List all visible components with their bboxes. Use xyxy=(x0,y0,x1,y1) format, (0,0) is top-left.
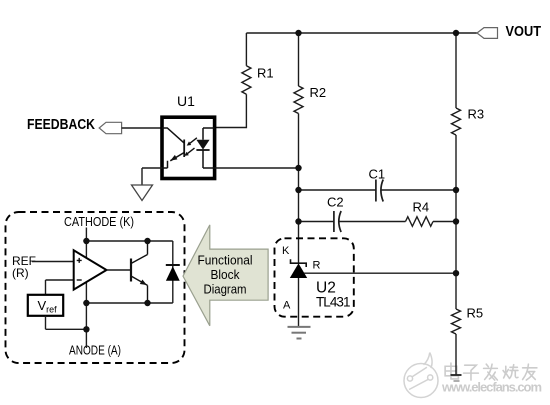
svg-text:VOUT: VOUT xyxy=(506,24,542,40)
ground (below R5) xyxy=(451,375,462,381)
svg-text:CATHODE (K): CATHODE (K) xyxy=(64,214,134,229)
svg-text:R1: R1 xyxy=(257,66,274,81)
wire: cathode vertical line xyxy=(85,228,87,349)
svg-text:C1: C1 xyxy=(369,167,386,182)
terminal FEEDBACK xyxy=(27,117,122,134)
svg-text:Diagram: Diagram xyxy=(204,281,247,296)
terminal VOUT xyxy=(477,24,541,40)
wire: Vref to anode rail xyxy=(46,316,87,330)
ground (below U2) xyxy=(288,327,311,339)
wire: op-amp output to transistor base xyxy=(107,269,132,271)
watermark chinese text 电子发烧友 xyxy=(445,363,537,380)
watermark logo (elecfans) xyxy=(404,353,438,398)
functional block diagram arrow xyxy=(183,225,268,326)
wire: U1 LED cathode to middle rail xyxy=(215,167,299,169)
svg-text:FEEDBACK: FEEDBACK xyxy=(27,117,95,133)
svg-text:TL431: TL431 xyxy=(316,295,351,310)
op-amp U3 (error amplifier) xyxy=(74,250,107,289)
resistor R3 xyxy=(452,33,461,309)
ground (below U1) xyxy=(132,185,153,201)
U1 light arrows xyxy=(187,138,197,154)
functional block diagram dashed box xyxy=(6,212,185,363)
svg-text:R2: R2 xyxy=(310,85,327,100)
optocoupler U1 xyxy=(162,117,215,178)
node junctions (block diagram) xyxy=(83,238,150,333)
U1 LED xyxy=(196,128,214,168)
svg-text:U1: U1 xyxy=(177,93,195,109)
U1 phototransistor xyxy=(162,128,184,168)
TL431 U2 symbol xyxy=(290,259,307,326)
wire: top rail xyxy=(246,32,477,34)
node junctions (main circuit) xyxy=(295,30,459,277)
svg-text:R5: R5 xyxy=(467,306,484,321)
wire: U2 reference to right rail xyxy=(304,272,456,274)
svg-text:R: R xyxy=(313,260,321,272)
svg-text:ANODE (A): ANODE (A) xyxy=(69,343,121,358)
wire: inverting input to Vref xyxy=(46,280,74,295)
wire: block bottom rail xyxy=(86,302,172,304)
resistor R1 xyxy=(216,33,251,128)
wire: REF input xyxy=(32,261,74,263)
voltage reference Vref box xyxy=(28,295,63,316)
shunt regulator U2 dashed box xyxy=(275,238,354,316)
resistor R4 xyxy=(406,217,434,227)
svg-text:Block: Block xyxy=(211,267,240,282)
transistor Q1 (block diagram) xyxy=(131,241,148,303)
U2 anode wire xyxy=(298,278,300,326)
diode D1 (block diagram) xyxy=(166,241,180,303)
svg-text:C2: C2 xyxy=(327,195,344,210)
wire: FEEDBACK to U1 xyxy=(122,127,162,129)
wire: U1 emitter to ground xyxy=(142,168,162,185)
wire: block top rail xyxy=(86,240,172,242)
resistor R2 xyxy=(294,33,303,263)
svg-text:R4: R4 xyxy=(413,200,430,215)
resistor R5 xyxy=(452,309,461,375)
wire: C1 rail xyxy=(299,189,457,191)
svg-text:A: A xyxy=(283,300,291,312)
capacitor C1 xyxy=(376,180,383,202)
svg-text:(R): (R) xyxy=(12,266,29,280)
svg-text:K: K xyxy=(282,245,290,257)
svg-text:R3: R3 xyxy=(468,107,485,122)
svg-text:Functional: Functional xyxy=(198,252,253,267)
wire: C2 rail xyxy=(299,221,457,223)
capacitor C2 xyxy=(334,211,341,232)
